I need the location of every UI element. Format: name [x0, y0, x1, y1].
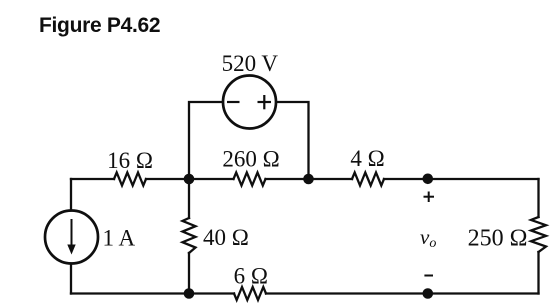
- svg-text:vo: vo: [420, 225, 436, 251]
- wire: voltage source right lead: [277, 102, 309, 179]
- resistor R 16ohm zigzag: [114, 173, 146, 186]
- voltage source plus terminal: [258, 95, 272, 109]
- wire: node B to 4-ohm: [309, 178, 353, 180]
- wire: node D to bottom-left corner: [71, 292, 189, 294]
- wire: right rail lower (250-ohm to bottom-right corner): [537, 252, 539, 294]
- node C junction dot: [423, 174, 434, 185]
- wire: 260-ohm to node B: [266, 178, 309, 180]
- voltage source minus terminal: [227, 101, 240, 103]
- resistor R 6ohm zigzag: [234, 287, 266, 300]
- wire: voltage source left lead: [189, 102, 223, 179]
- svg-text:40 Ω: 40 Ω: [203, 225, 249, 250]
- svg-text:260 Ω: 260 Ω: [222, 147, 279, 172]
- current source I 1A circle: [45, 211, 98, 264]
- svg-text:16 Ω: 16 Ω: [107, 148, 153, 173]
- wire: node A down to 40-ohm: [188, 179, 190, 218]
- wire: node E to 6-ohm: [266, 292, 428, 294]
- svg-text:250 Ω: 250 Ω: [468, 226, 528, 252]
- node D junction dot: [184, 288, 195, 299]
- resistor R 4ohm zigzag: [352, 173, 384, 186]
- voltage source V 520V circle: [223, 76, 276, 129]
- label minus sign of vo: [424, 275, 433, 277]
- wire: 6-ohm to node D: [189, 292, 234, 294]
- wire: node A to 260-ohm: [189, 178, 234, 180]
- wire: left rail upper (corner to current source): [70, 179, 72, 211]
- node A junction dot: [184, 174, 195, 185]
- wire: 4-ohm to node C: [384, 178, 428, 180]
- wire: 40-ohm to node D: [188, 253, 190, 294]
- wire: right rail upper (corner down to 250-ohm): [537, 179, 539, 217]
- wire: 16-ohm to node A: [146, 178, 189, 180]
- label plus sign of vo: [424, 192, 435, 203]
- resistor R 250ohm vertical zigzag: [531, 217, 546, 252]
- figure title: [39, 14, 160, 38]
- current source arrow: [67, 219, 75, 255]
- wire: left rail lower (current source to bottom corner): [70, 264, 72, 294]
- svg-text:6 Ω: 6 Ω: [234, 264, 268, 289]
- node E junction dot: [423, 288, 434, 299]
- wire: node C to top-right corner: [428, 178, 539, 180]
- wire: bottom rail right segment (corner to node E): [428, 292, 539, 294]
- resistor R 260ohm zigzag: [234, 173, 266, 186]
- svg-text:520 V: 520 V: [222, 51, 279, 76]
- svg-text:1 A: 1 A: [103, 226, 136, 251]
- resistor R 40ohm vertical zigzag: [183, 218, 196, 253]
- svg-text:4 Ω: 4 Ω: [350, 146, 384, 171]
- node B junction dot: [303, 174, 314, 185]
- wire: top rail left segment (left corner to 16-ohm): [71, 178, 114, 180]
